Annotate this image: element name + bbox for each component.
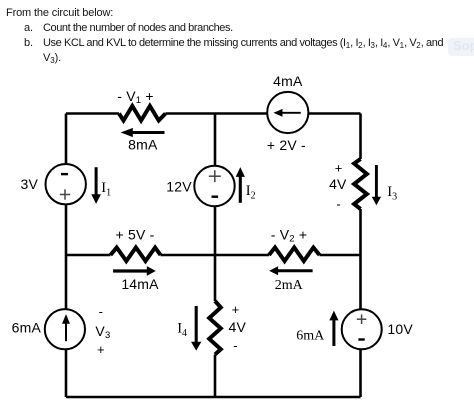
watermark pill <box>448 38 474 56</box>
svg-text:3V: 3V <box>20 176 38 192</box>
resistor R-4V bottom (I4) <box>209 301 221 355</box>
item a <box>24 22 33 34</box>
svg-text:4mA: 4mA <box>273 73 303 89</box>
resistor R-V1 (top, 8mA) <box>119 106 166 121</box>
resistor R-V2 (middle right, 2mA) <box>269 248 320 262</box>
current source I-6mA left <box>45 309 85 349</box>
svg-text:+: + <box>232 302 240 317</box>
arrow I2 <box>237 168 245 203</box>
wire middle horizontal left <box>66 254 111 257</box>
current source I-4mA <box>267 92 308 133</box>
svg-text:6mA: 6mA <box>12 320 42 336</box>
arrow I1 <box>92 167 100 203</box>
arrow 8mA <box>122 129 165 137</box>
resistor R-4V right (I3) <box>354 159 367 209</box>
wire middle horizontal center <box>161 254 270 257</box>
wire bottom <box>66 396 361 399</box>
svg-text:-: - <box>233 338 237 353</box>
arrow 2mA <box>270 267 312 274</box>
arrow I4 <box>192 306 201 350</box>
voltage source V-3V <box>45 164 85 204</box>
svg-text:4V: 4V <box>229 319 247 335</box>
wire right vertical lower <box>359 209 362 397</box>
wire left vertical <box>65 114 68 398</box>
wire right vertical upper <box>359 114 362 160</box>
svg-text:+: + <box>97 342 105 357</box>
wire middle horizontal right <box>320 254 361 257</box>
problem statement line 1 <box>6 7 113 19</box>
svg-text:I4: I4 <box>177 321 187 340</box>
svg-text:I2: I2 <box>246 183 256 202</box>
svg-text:12V: 12V <box>166 179 192 195</box>
svg-text:10V: 10V <box>387 321 413 337</box>
svg-text:I1: I1 <box>101 180 111 199</box>
svg-text:-: - <box>99 304 103 319</box>
svg-text:14mA: 14mA <box>121 276 159 292</box>
arrow I3 <box>373 165 381 204</box>
svg-text:4V: 4V <box>329 176 347 192</box>
item b line 1 <box>24 37 33 49</box>
arrow 14mA <box>113 267 155 275</box>
item b line 2 <box>43 52 61 64</box>
svg-text:I3: I3 <box>387 184 397 203</box>
svg-text:+: + <box>335 161 343 176</box>
wire middle vertical upper <box>214 114 217 302</box>
voltage source V-10V <box>342 309 382 349</box>
svg-text:+ 2V -: + 2V - <box>267 137 306 153</box>
arrow 6mA right <box>330 312 338 346</box>
resistor R-5V (middle left, 14mA) <box>111 248 161 262</box>
svg-text:2mA: 2mA <box>275 278 304 293</box>
svg-text:- V1 +: - V1 + <box>117 88 153 106</box>
svg-text:- V2 +: - V2 + <box>271 227 307 245</box>
svg-text:8mA: 8mA <box>128 136 158 152</box>
svg-text:V3: V3 <box>95 323 110 341</box>
svg-text:-: - <box>336 197 340 212</box>
voltage source V-12V <box>194 166 234 206</box>
svg-text:+ 5V -: + 5V - <box>116 227 155 243</box>
wire top-right segment <box>166 112 361 115</box>
wire top-left segment <box>66 112 119 115</box>
wire middle vertical lower <box>214 355 217 398</box>
svg-text:6mA: 6mA <box>296 328 325 343</box>
